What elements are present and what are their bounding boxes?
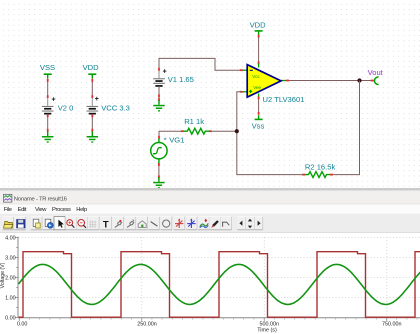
toolbar icon: copy page bbox=[31, 217, 42, 230]
svg-text:Help: Help bbox=[76, 207, 87, 213]
svg-text:0.00: 0.00 bbox=[17, 321, 28, 327]
window icon bbox=[4, 194, 12, 202]
resistor R1 bbox=[181, 117, 212, 134]
toolbar icon: circle tool bbox=[161, 217, 172, 230]
svg-text:View: View bbox=[35, 207, 47, 213]
toolbar icon: home shape bbox=[136, 217, 147, 230]
svg-text:V2 0: V2 0 bbox=[58, 103, 74, 112]
svg-text:1.00: 1.00 bbox=[5, 295, 16, 301]
svg-text:3.00: 3.00 bbox=[5, 255, 16, 261]
toolbar icon: select cursor (active) bbox=[54, 217, 65, 230]
toolbar icon: zoom in bbox=[65, 217, 76, 230]
battery V2 bbox=[42, 96, 73, 114]
wire U2 output to Vout bbox=[286, 80, 373, 82]
toolbar icon: curves bbox=[198, 217, 209, 230]
toolbar icon: probe 2 bbox=[125, 217, 136, 230]
generator VG1 bbox=[151, 135, 185, 164]
ground below V1 bbox=[153, 100, 164, 111]
svg-text:250.00n: 250.00n bbox=[137, 321, 157, 327]
wire node A up to U2 plus input bbox=[237, 92, 241, 131]
toolbar background bbox=[0, 214, 420, 233]
svg-text:Voltage (V): Voltage (V) bbox=[0, 262, 6, 288]
svg-text:4.00: 4.00 bbox=[5, 235, 16, 241]
svg-text:+: + bbox=[52, 96, 56, 103]
ground below VG1 bbox=[153, 177, 164, 188]
svg-text:U2 TLV3601: U2 TLV3601 bbox=[263, 95, 305, 104]
chart axes bbox=[18, 237, 420, 318]
toolbar icon: probe 1 bbox=[112, 217, 123, 230]
wire VDD jumper to U2 VCC pin bbox=[258, 35, 260, 64]
svg-text:File: File bbox=[4, 207, 12, 213]
ground below VCC bbox=[87, 131, 98, 142]
node VSS jumper label bbox=[40, 63, 55, 78]
svg-text:VDD: VDD bbox=[83, 63, 100, 72]
wire VG1 top to R1 left bbox=[158, 131, 182, 138]
svg-text:Vss: Vss bbox=[252, 122, 265, 131]
wire V2 bottom to ground bbox=[47, 114, 49, 132]
toolbar icon: text tool bbox=[100, 217, 111, 231]
wire V1 top to U2 minus input bbox=[158, 58, 241, 70]
svg-text:*: * bbox=[164, 135, 167, 144]
node VDD jumper label (left) bbox=[83, 63, 100, 78]
schematic grid background bbox=[0, 0, 420, 188]
svg-text:2.00: 2.00 bbox=[5, 275, 16, 281]
svg-text:Vee: Vee bbox=[253, 85, 261, 90]
toolbar icon: export page bbox=[43, 217, 54, 230]
wire U2 VEE pin to Vss jumper bbox=[258, 97, 260, 115]
wire R1 right to node A bbox=[210, 130, 237, 132]
svg-text:VSS: VSS bbox=[40, 63, 55, 72]
node Vss jumper below U2 bbox=[252, 115, 265, 130]
node Vout terminal bbox=[368, 68, 384, 85]
svg-text:500.00n: 500.00n bbox=[260, 321, 280, 327]
wire VSS jumper to V2 top bbox=[47, 78, 49, 98]
op-amp U2 TLV3601 bbox=[240, 64, 305, 104]
waveform square (Vout) bbox=[19, 252, 420, 318]
wire output down to R2 right bbox=[332, 81, 360, 175]
toolbar icon: polyline bbox=[220, 217, 231, 230]
svg-text:V1 1.65: V1 1.65 bbox=[168, 75, 194, 84]
svg-text:T: T bbox=[103, 219, 109, 230]
svg-text:0.00: 0.00 bbox=[5, 315, 16, 321]
svg-text:VDD: VDD bbox=[250, 21, 267, 30]
svg-text:R1 1k: R1 1k bbox=[184, 117, 204, 126]
toolbar icon: pen bbox=[209, 217, 220, 230]
chart gridlines bbox=[19, 237, 420, 318]
node VDD jumper above U2 bbox=[250, 21, 267, 35]
toolbar icon: red axis bbox=[174, 217, 185, 230]
wire V1 bottom to ground bbox=[158, 86, 160, 101]
title bar bbox=[0, 191, 420, 204]
toolbar icon: grid (disabled) bbox=[88, 217, 99, 230]
chart background bbox=[0, 233, 420, 334]
battery VCC bbox=[87, 96, 130, 115]
toolbar icon: save bbox=[14, 217, 25, 230]
toolbar icon: line tool bbox=[148, 217, 159, 230]
resistor R2 bbox=[302, 163, 335, 178]
svg-text:R2 16.5k: R2 16.5k bbox=[305, 163, 336, 172]
wire VDD jumper to VCC top bbox=[91, 78, 93, 98]
toolbar icon: zoom out bbox=[77, 217, 88, 230]
axis labels bbox=[0, 235, 402, 333]
wire VG1 bottom to ground bbox=[158, 163, 160, 178]
battery V1 bbox=[153, 69, 194, 87]
toolbar spinner control bbox=[237, 217, 263, 230]
svg-text:Vout: Vout bbox=[368, 68, 384, 77]
toolbar icon: open file bbox=[3, 217, 14, 230]
toolbar icon: blue axis bbox=[186, 217, 197, 230]
axis ticks bbox=[15, 238, 420, 321]
svg-text:+: + bbox=[163, 69, 167, 76]
svg-text:+: + bbox=[95, 96, 99, 103]
svg-text:Time (s): Time (s) bbox=[257, 328, 277, 334]
svg-text:Vcc: Vcc bbox=[252, 74, 260, 79]
svg-text:VG1: VG1 bbox=[169, 135, 184, 144]
ground below V2 bbox=[42, 131, 53, 142]
junction node A bbox=[235, 129, 239, 133]
wire VCC bottom to ground bbox=[91, 114, 93, 132]
svg-text:Noname - TR result16: Noname - TR result16 bbox=[14, 196, 68, 202]
svg-text:VCC 3.3: VCC 3.3 bbox=[101, 103, 130, 112]
menu bar bbox=[0, 204, 420, 213]
junction output node bbox=[357, 78, 361, 82]
svg-text:Process: Process bbox=[52, 207, 71, 213]
waveform sine (VG1) bbox=[19, 264, 420, 304]
svg-text:Edit: Edit bbox=[18, 207, 27, 213]
wire R2 left to node A bbox=[237, 131, 304, 174]
window top shadow bbox=[0, 188, 420, 191]
svg-text:750.00n: 750.00n bbox=[382, 321, 402, 327]
